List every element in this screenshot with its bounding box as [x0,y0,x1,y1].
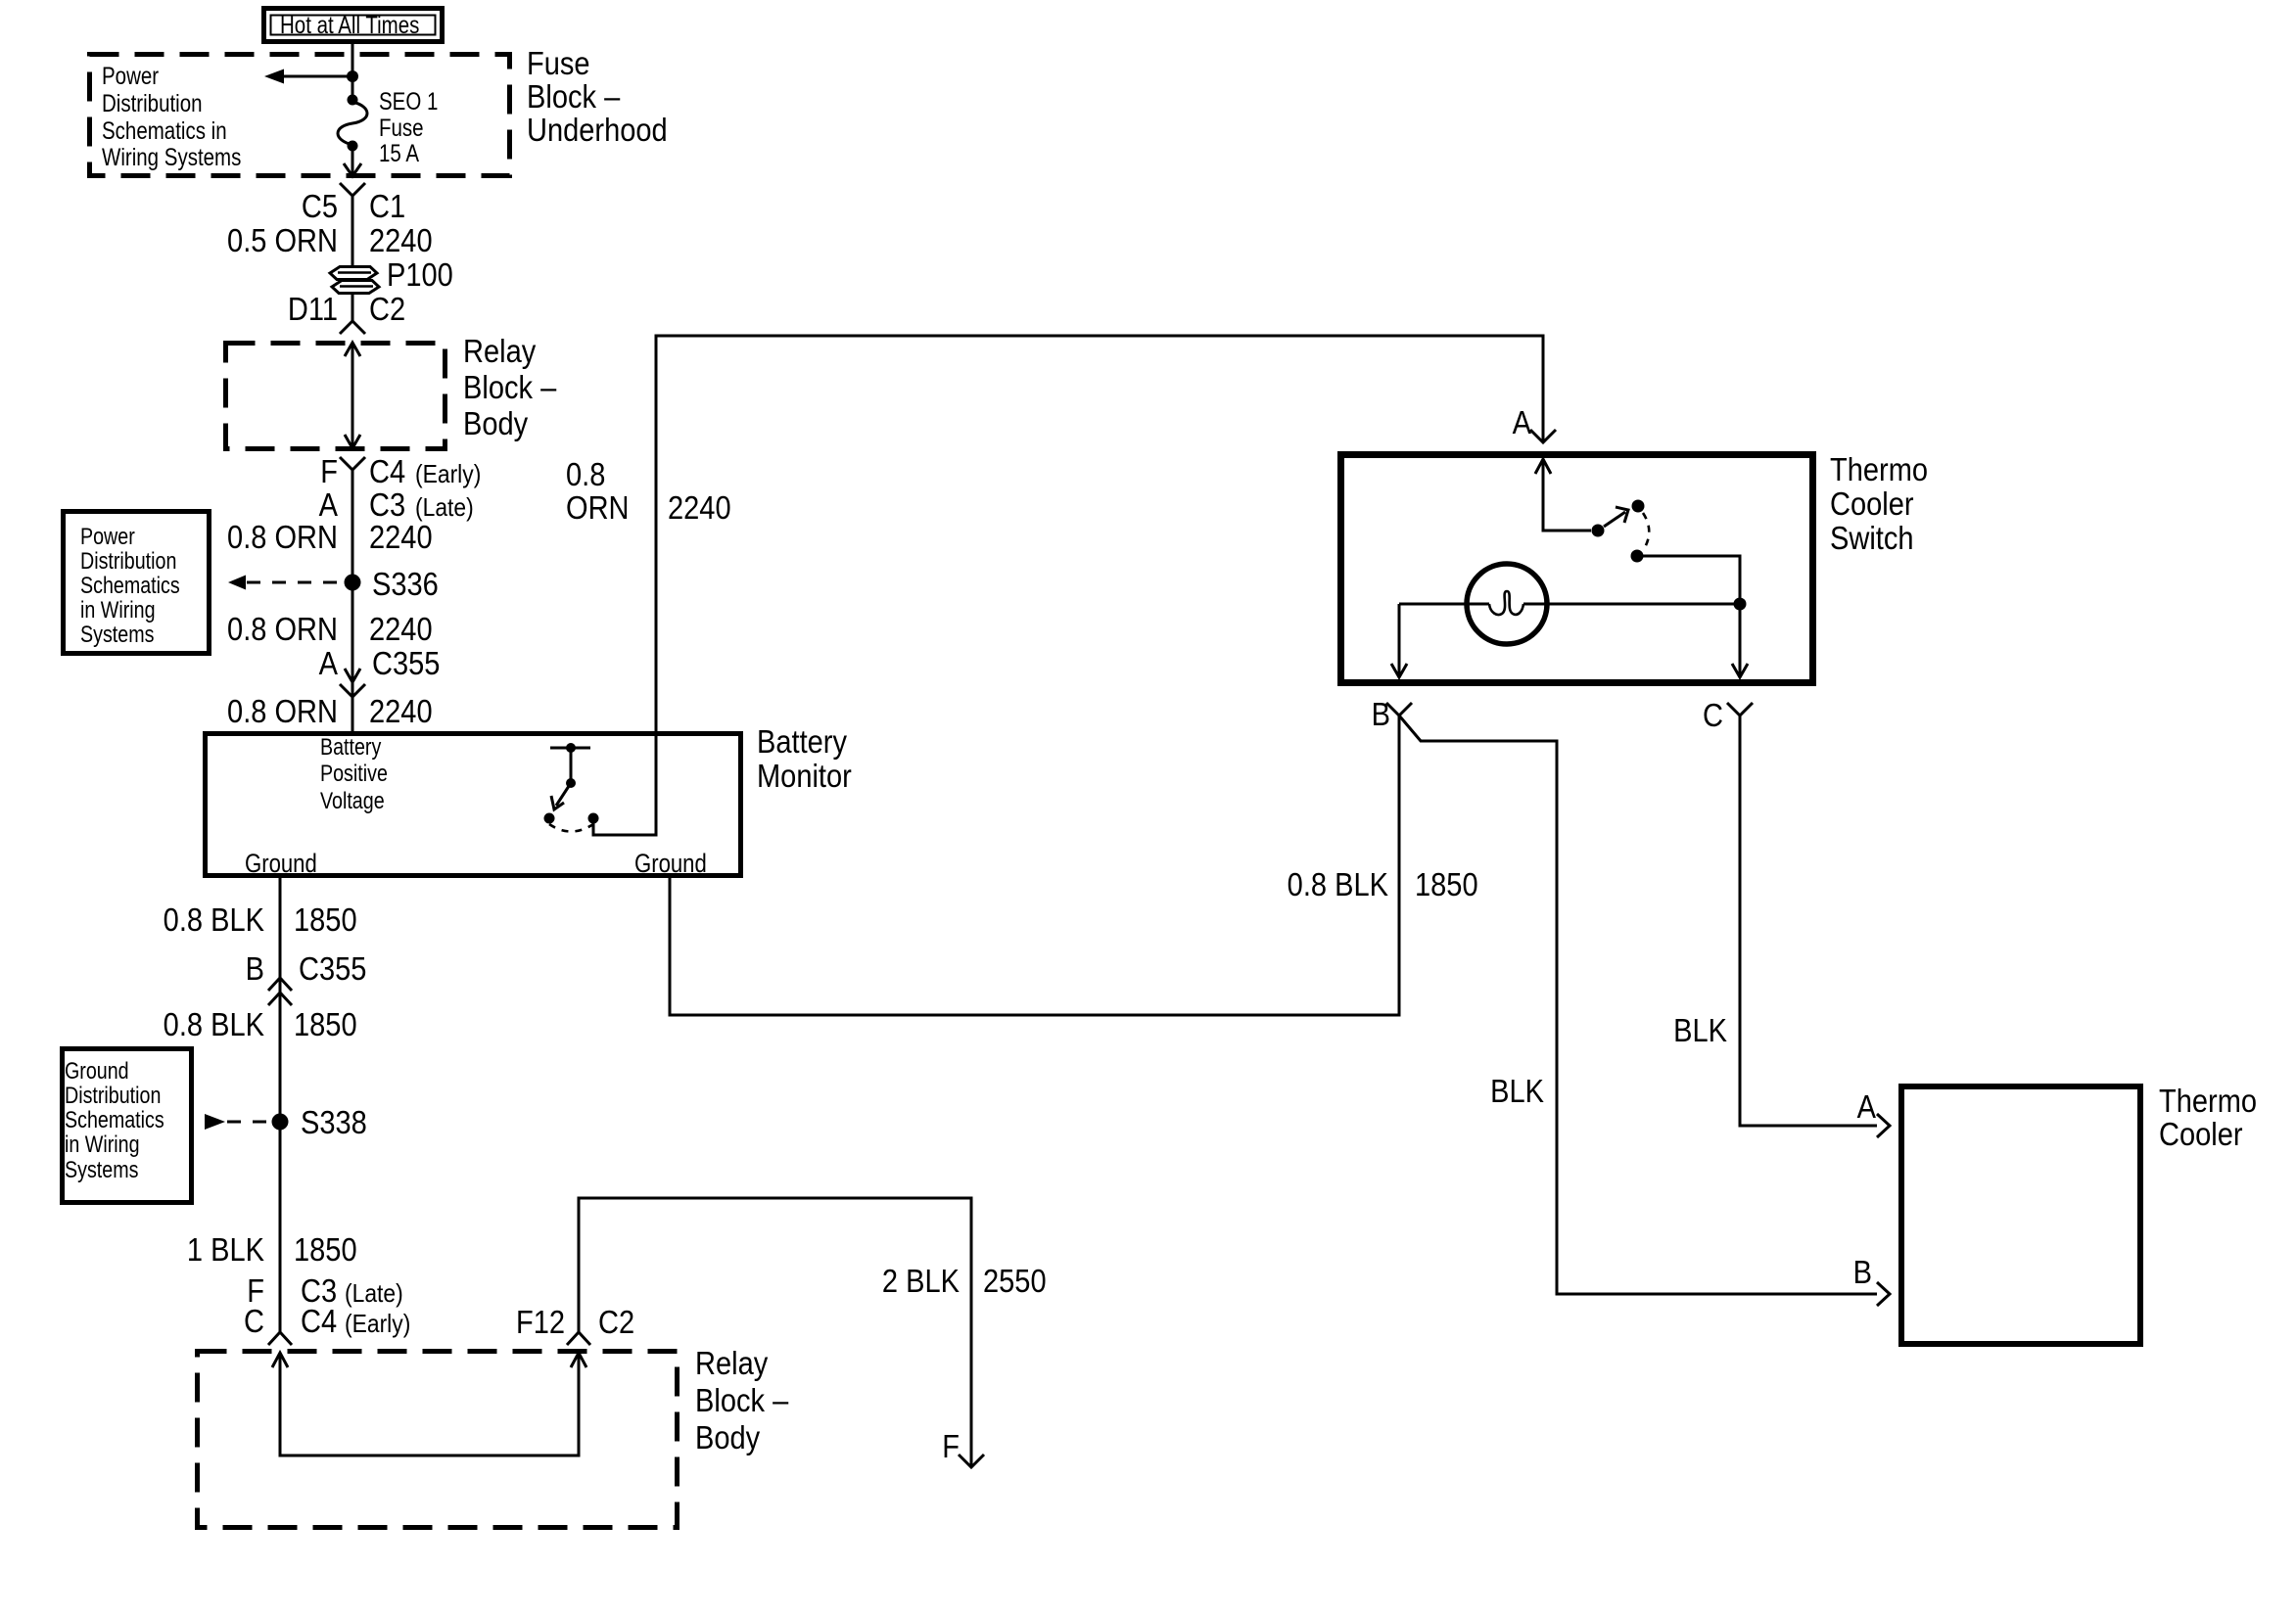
svg-text:2240: 2240 [369,519,433,555]
svg-text:2550: 2550 [983,1263,1047,1299]
svg-text:Systems: Systems [65,1156,138,1182]
svg-text:(Early): (Early) [345,1311,410,1339]
wire lamp rail to B terminal [1391,604,1407,677]
svg-text:C4: C4 [369,453,405,489]
svg-text:C2: C2 [369,291,405,327]
op battery monitor (solid box) [206,734,741,876]
label Thermo Cooler [2159,1083,2257,1152]
svg-text:1850: 1850 [294,1006,357,1042]
dashed reference wire to S338 [227,1121,268,1124]
svg-text:Body: Body [463,405,529,441]
splice S336 dot [345,575,361,591]
pin Battery Positive Voltage [320,733,388,813]
wire battery monitor right ground to switch B [670,716,1399,1015]
connector chevron F/C4 below relay block [340,457,365,470]
svg-text:Schematics: Schematics [80,572,180,598]
svg-text:Systems: Systems [80,621,154,647]
svg-text:0.8 ORN: 0.8 ORN [227,611,338,647]
connector chevron B at thermo cooler [1877,1282,1890,1306]
svg-text:2240: 2240 [668,489,731,526]
svg-text:Block –: Block – [695,1382,789,1418]
connector chevron C/C4 above relay block [268,1332,292,1345]
fuse SEO 1 15 A (wavy symbol with end dots) [338,95,367,152]
svg-text:C3: C3 [369,486,405,523]
svg-text:in Wiring: in Wiring [65,1131,140,1157]
connector chevron F at splice pack [959,1455,984,1467]
svg-text:Hot at All Times: Hot at All Times [280,11,419,38]
connector chevron D11/C2 [340,321,365,334]
svg-text:in Wiring: in Wiring [80,596,156,623]
svg-text:B: B [1372,696,1390,732]
svg-text:15 A: 15 A [379,139,420,166]
svg-text:0.8 ORN: 0.8 ORN [227,693,338,729]
svg-text:Power: Power [102,62,159,89]
connector chevron C5/C1 [340,183,365,196]
svg-text:(Early): (Early) [415,461,481,489]
wire switch B to thermo cooler B [1399,716,1877,1294]
svg-text:(Late): (Late) [345,1280,403,1309]
svg-text:0.5 ORN: 0.5 ORN [227,222,338,258]
wire junction to C terminal [1732,610,1748,677]
svg-text:Fuse: Fuse [527,45,590,81]
svg-text:1850: 1850 [294,1231,357,1268]
connector chevron B below switch [1386,703,1412,716]
svg-text:Monitor: Monitor [757,758,852,794]
label Relay Block - Body (lower) [695,1345,789,1455]
svg-text:0.8 BLK: 0.8 BLK [164,1006,265,1042]
svg-text:1 BLK: 1 BLK [187,1231,264,1268]
wire battery monitor to thermo cooler switch A [656,336,1543,731]
svg-text:(Late): (Late) [415,494,474,523]
label 0.8 ORN / 2240 (switch feed) [566,456,731,526]
label Relay Block - Body [463,333,557,441]
label Battery Monitor [757,723,852,794]
svg-text:C2: C2 [598,1304,634,1340]
svg-text:S336: S336 [372,566,439,602]
connector C355 double chevron [268,978,292,1005]
svg-text:Cooler: Cooler [2159,1116,2243,1152]
arrowhead left to power distribution box [228,576,246,590]
svg-text:F: F [320,453,338,489]
lamp (indicator bulb) [1399,564,1734,644]
wire branch to power distribution (arrow left) [283,75,352,78]
arrowhead from ground distribution box [205,1114,225,1130]
svg-text:Voltage: Voltage [320,787,385,813]
svg-text:B: B [246,950,264,987]
svg-text:2240: 2240 [369,222,433,258]
svg-text:C: C [1703,697,1723,733]
relay block body (dashed box, lower) [198,1352,678,1528]
arrowhead down at fuse block boundary [344,163,361,176]
svg-text:2 BLK: 2 BLK [882,1263,960,1299]
svg-text:C5: C5 [302,188,338,224]
svg-text:Cooler: Cooler [1830,485,1914,522]
svg-text:Power: Power [80,523,135,549]
svg-text:D11: D11 [288,291,338,327]
svg-text:C4: C4 [301,1303,337,1339]
svg-text:F: F [942,1428,960,1464]
connector C355 arrow + chevron [340,669,365,697]
wire hot feed from Hot box into fuse block [351,44,354,97]
svg-text:BLK: BLK [1673,1012,1727,1048]
svg-text:F12: F12 [516,1304,565,1340]
wire P100 to D11/C2 connector [351,294,354,321]
svg-text:Distribution: Distribution [65,1082,161,1108]
connector chevron F12/C2 above relay block [567,1332,590,1345]
svg-text:A: A [1513,404,1532,440]
svg-text:BLK: BLK [1490,1073,1544,1109]
svg-text:0.8 BLK: 0.8 BLK [164,901,265,938]
svg-text:1850: 1850 [294,901,357,938]
wire through relay block (C to F12) [272,1353,586,1455]
label Fuse Block - Underhood [527,45,668,148]
svg-text:0.8 BLK: 0.8 BLK [1288,866,1389,902]
switch throw contact dot (upper) [1632,500,1645,513]
svg-text:Ground: Ground [245,850,317,879]
wire relay block F12 to splice pack [579,1198,971,1467]
svg-text:Positive: Positive [320,760,388,786]
switch lower contact dot [1631,550,1644,563]
label SEO 1 Fuse 15 A [379,87,438,166]
svg-text:Block –: Block – [463,369,557,405]
dashed reference wire from S336 [247,581,345,584]
switch pivot contact dot [1592,525,1605,537]
svg-text:SEO 1: SEO 1 [379,87,438,115]
svg-text:Schematics: Schematics [65,1106,164,1132]
svg-text:Distribution: Distribution [80,547,176,574]
connector chevron A at thermo cooler [1877,1114,1890,1137]
splice S338 dot [272,1114,289,1131]
wire lower contact to lamp rail [1643,556,1740,598]
svg-text:A: A [319,645,339,681]
svg-text:C1: C1 [369,188,405,224]
wire through relay block with terminal arrows [345,343,360,448]
svg-text:1850: 1850 [1415,866,1478,902]
svg-text:Thermo: Thermo [2159,1083,2257,1119]
fuse block underhood (dashed box) [90,55,510,176]
svg-text:C: C [244,1303,264,1339]
svg-text:Underhood: Underhood [527,112,668,148]
relay block body (dashed box, upper) [226,344,445,449]
svg-text:Ground: Ground [65,1057,129,1084]
wire switch C to thermo cooler A [1740,716,1877,1126]
dashed travel arc [1643,513,1649,549]
ground distribution schematics reference box (solid) [63,1049,192,1203]
node junction dot on lamp rail [1734,598,1747,611]
svg-text:ORN: ORN [566,489,630,526]
switch inside battery monitor [544,743,599,832]
svg-text:B: B [1853,1254,1872,1290]
op thermo cooler (solid box) [1901,1086,2140,1344]
label Thermo Cooler Switch [1830,451,1928,556]
connector chevron A at thermo cooler switch [1530,430,1556,442]
wire fuse output to fuse block edge [351,149,354,175]
svg-text:Fuse: Fuse [379,114,424,141]
svg-text:Battery: Battery [320,733,381,760]
svg-text:Block –: Block – [527,78,621,115]
svg-text:2240: 2240 [369,693,433,729]
wire switch output to box top [593,731,656,835]
svg-text:2240: 2240 [369,611,433,647]
node junction dot in fuse block [347,70,358,82]
svg-text:Relay: Relay [695,1345,769,1381]
svg-text:Schematics in: Schematics in [102,116,227,144]
svg-text:Distribution: Distribution [102,89,203,116]
label Power Distribution Schematics in Wiring Systems [102,62,241,170]
svg-text:0.8 ORN: 0.8 ORN [227,519,338,555]
wire relay block to battery monitor [351,470,354,731]
switch arm with arrowhead [1604,507,1628,527]
svg-text:A: A [1857,1088,1877,1125]
wire battery monitor left ground down to relay block [279,878,282,1332]
svg-text:C355: C355 [299,950,366,987]
svg-text:Body: Body [695,1419,761,1455]
arrowhead to power distribution schematics [264,69,284,84]
svg-text:Thermo: Thermo [1830,451,1928,487]
svg-text:0.8: 0.8 [566,456,605,492]
svg-text:S338: S338 [301,1104,367,1140]
wire C5/C1 to P100 [351,196,354,266]
svg-text:A: A [319,486,339,523]
svg-text:Ground: Ground [634,850,707,879]
svg-text:Wiring Systems: Wiring Systems [102,143,241,170]
power distribution schematics reference box (solid) [64,512,210,654]
node Hot at All Times (double-border box) [264,9,443,42]
svg-text:C355: C355 [372,645,440,681]
connector P100 grommet symbol [330,267,379,294]
svg-text:Switch: Switch [1830,520,1914,556]
connector chevron C below switch [1727,703,1753,716]
svg-text:P100: P100 [387,256,453,293]
svg-text:Relay: Relay [463,333,537,369]
svg-text:Battery: Battery [757,723,847,760]
wire A terminal inside switch box [1535,459,1591,531]
op thermo cooler switch (solid box) [1341,455,1813,683]
